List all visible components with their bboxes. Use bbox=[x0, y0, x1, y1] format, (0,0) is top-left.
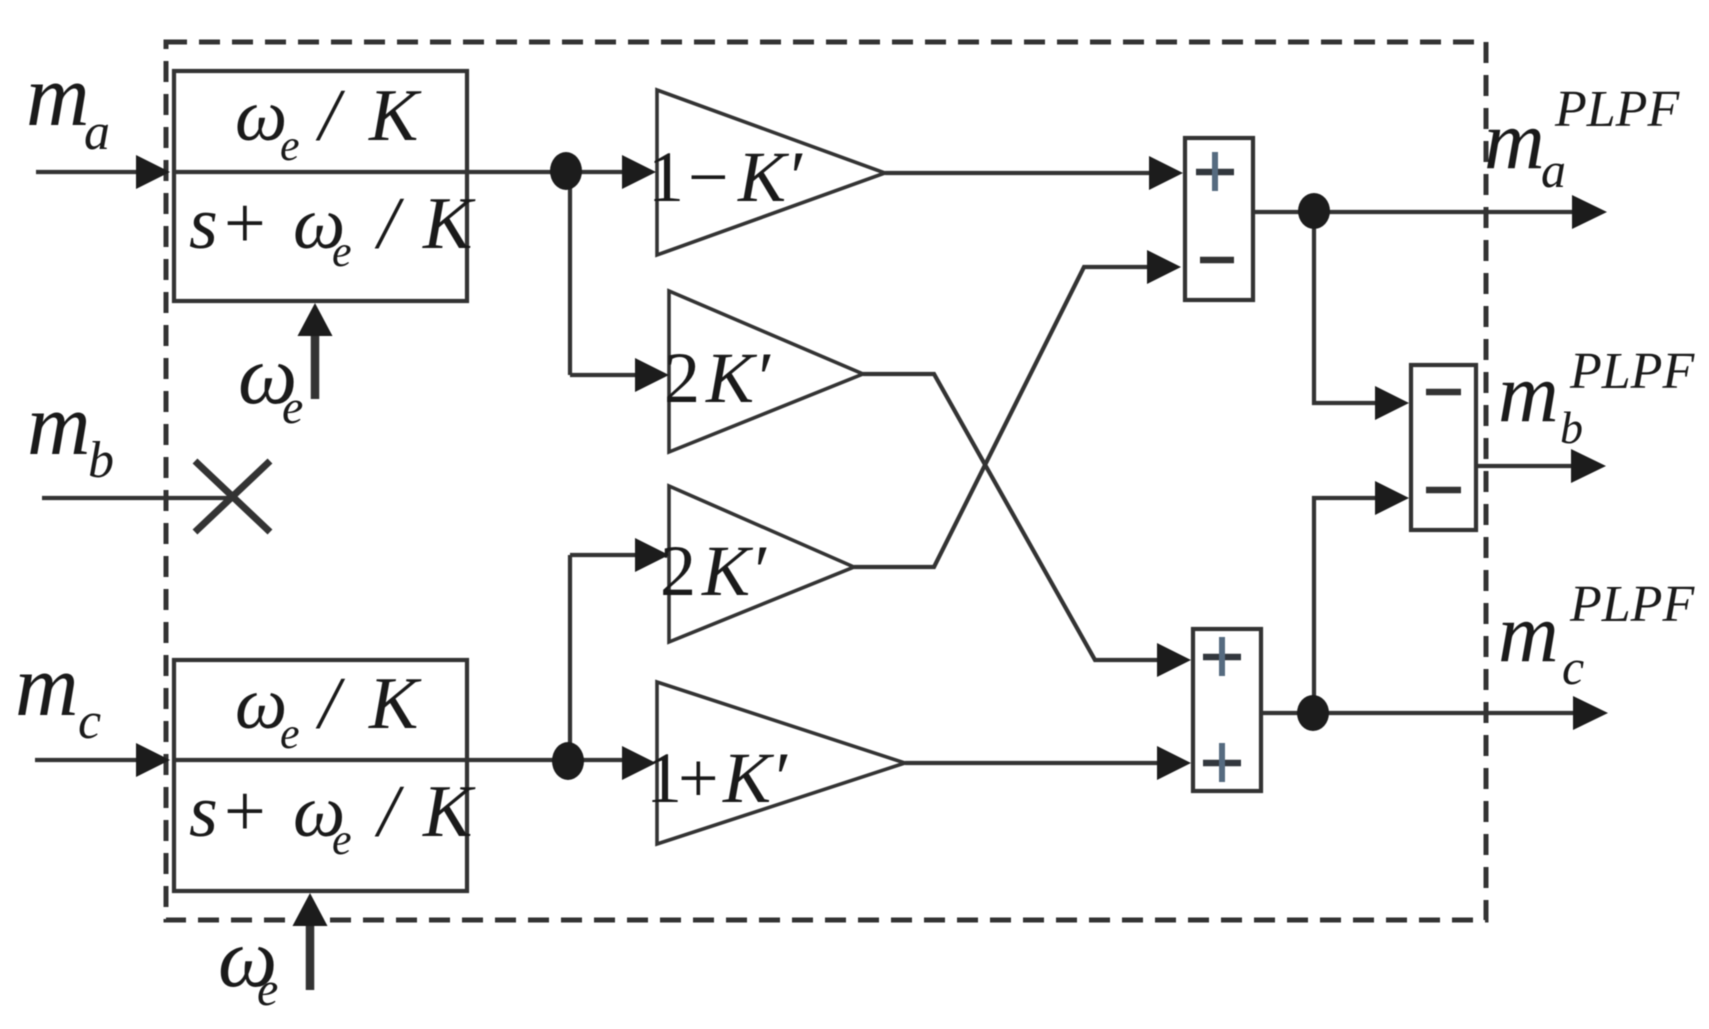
svg-text:K: K bbox=[368, 663, 422, 745]
svg-text:PLPF: PLPF bbox=[1569, 343, 1695, 400]
svg-text:K: K bbox=[422, 771, 476, 853]
svg-text:−: − bbox=[688, 137, 729, 217]
svg-text:PLPF: PLPF bbox=[1554, 81, 1680, 138]
svg-text:e: e bbox=[280, 121, 300, 170]
svg-text:b: b bbox=[1560, 402, 1583, 453]
svg-text:+: + bbox=[224, 771, 266, 853]
svg-text:/: / bbox=[315, 75, 346, 157]
svg-text:e: e bbox=[282, 381, 303, 434]
svg-text:PLPF: PLPF bbox=[1569, 576, 1695, 633]
svg-text:K: K bbox=[422, 183, 476, 265]
svg-text:b: b bbox=[88, 432, 114, 489]
svg-text:e: e bbox=[280, 709, 300, 758]
svg-text:/: / bbox=[315, 663, 346, 745]
svg-text:e: e bbox=[332, 227, 352, 276]
svg-text:c: c bbox=[1562, 639, 1584, 695]
svg-text:K′: K′ bbox=[705, 338, 771, 418]
svg-text:+: + bbox=[678, 738, 719, 818]
svg-text:+: + bbox=[224, 183, 266, 265]
svg-text:m: m bbox=[15, 638, 79, 735]
svg-text:m: m bbox=[1484, 94, 1545, 187]
svg-text:1: 1 bbox=[648, 137, 684, 217]
svg-text:e: e bbox=[332, 815, 352, 864]
svg-text:/: / bbox=[374, 771, 405, 853]
svg-text:m: m bbox=[1498, 347, 1559, 440]
svg-text:K: K bbox=[368, 75, 422, 157]
svg-text:a: a bbox=[1541, 142, 1566, 198]
svg-text:K′: K′ bbox=[722, 738, 788, 818]
svg-text:2: 2 bbox=[660, 531, 696, 611]
svg-text:c: c bbox=[78, 693, 101, 750]
svg-text:/: / bbox=[374, 183, 405, 265]
svg-text:m: m bbox=[26, 48, 90, 145]
svg-text:e: e bbox=[257, 963, 278, 1016]
svg-text:s: s bbox=[189, 771, 218, 853]
svg-text:s: s bbox=[189, 183, 218, 265]
svg-text:1: 1 bbox=[646, 738, 682, 818]
svg-text:m: m bbox=[1498, 587, 1559, 680]
svg-text:a: a bbox=[84, 104, 110, 161]
svg-text:K′: K′ bbox=[701, 531, 767, 611]
svg-text:m: m bbox=[27, 377, 91, 474]
svg-text:K′: K′ bbox=[737, 137, 803, 217]
svg-text:2: 2 bbox=[664, 338, 700, 418]
